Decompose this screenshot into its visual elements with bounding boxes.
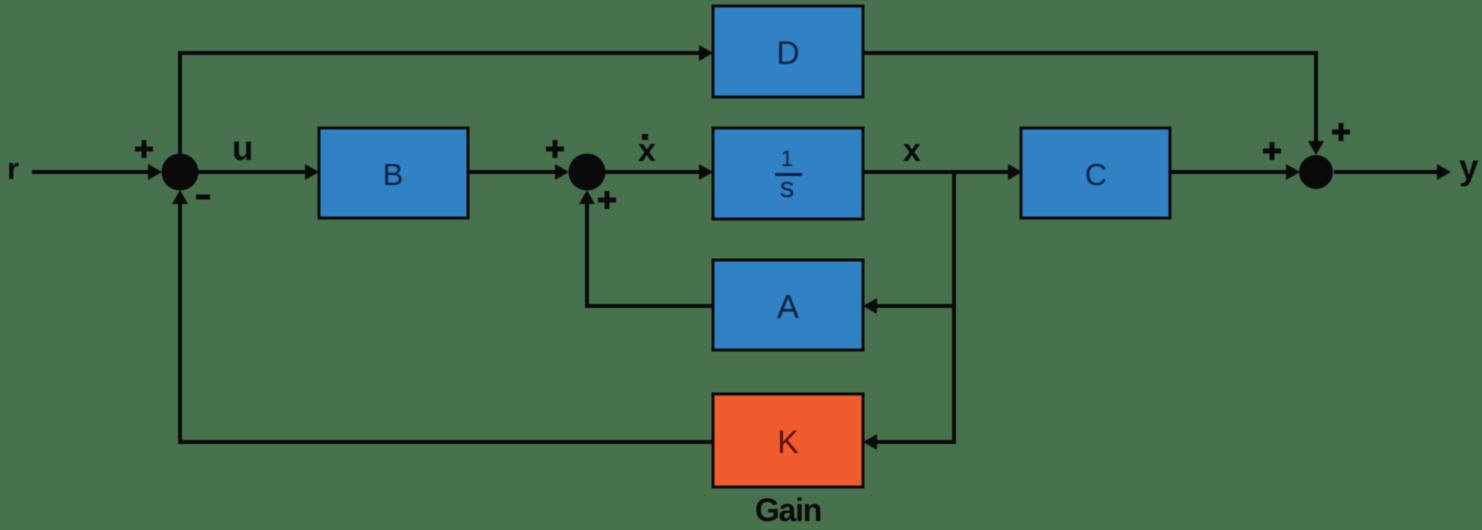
wire B to j2 bbox=[468, 170, 558, 174]
arrowhead into j3 bbox=[1286, 164, 1300, 180]
wire integrator to C bbox=[864, 170, 1010, 174]
svg-text:Gain: Gain bbox=[755, 492, 821, 528]
summing junction j1 bbox=[162, 154, 199, 191]
svg-text:D: D bbox=[776, 35, 799, 71]
arrowhead D down into j3 bbox=[1308, 141, 1324, 155]
svg-text:B: B bbox=[383, 157, 404, 192]
wire x branch down to A and K rows bbox=[876, 172, 954, 442]
wire j1 up to D row bbox=[180, 53, 700, 156]
block K gain bbox=[713, 394, 863, 487]
plus sign j2 left bbox=[546, 140, 564, 158]
wire K output feedback to j1 bbox=[180, 203, 713, 442]
block integrator 1/s bbox=[713, 128, 863, 219]
wire C to j3 bbox=[1170, 170, 1288, 174]
block B bbox=[319, 128, 468, 218]
plus sign j2 bottom bbox=[598, 191, 616, 209]
block C bbox=[1021, 128, 1170, 218]
wire j3 to y output bbox=[1334, 170, 1438, 174]
svg-text:s: s bbox=[780, 172, 795, 204]
arrowhead into integrator bbox=[699, 164, 713, 180]
summing junction j2 bbox=[569, 154, 606, 191]
arrowhead into j2 bbox=[555, 164, 569, 180]
arrowhead into D bbox=[699, 45, 713, 61]
summing junction j3 bbox=[1299, 155, 1333, 189]
svg-text:K: K bbox=[777, 424, 798, 460]
svg-text:y: y bbox=[1459, 148, 1479, 187]
svg-text:r: r bbox=[7, 151, 19, 186]
arrowhead into B bbox=[305, 164, 319, 180]
wire j1 to B bbox=[197, 170, 308, 174]
wire r input bbox=[32, 170, 152, 174]
wire j2 to integrator bbox=[605, 170, 700, 174]
svg-text:A: A bbox=[777, 288, 799, 325]
wire x branch into A bbox=[876, 304, 954, 308]
svg-text:1: 1 bbox=[781, 146, 793, 171]
arrowhead into A bbox=[863, 298, 877, 314]
plus sign j1 bbox=[135, 140, 153, 158]
svg-text:x: x bbox=[903, 132, 921, 168]
arrowhead K up into j1 bbox=[172, 190, 188, 204]
wire A output to j2 bbox=[587, 203, 713, 306]
wire D output to j3 bbox=[864, 53, 1316, 144]
arrowhead into K bbox=[863, 434, 877, 450]
plus sign j3 left bbox=[1263, 142, 1281, 160]
arrowhead into C bbox=[1008, 164, 1022, 180]
block D bbox=[713, 6, 863, 97]
svg-text:C: C bbox=[1085, 157, 1107, 192]
arrowhead output y bbox=[1437, 164, 1451, 180]
minus sign j1 bbox=[196, 195, 210, 200]
arrowhead A up into j2 bbox=[579, 190, 595, 204]
block A bbox=[713, 260, 863, 350]
svg-text:u: u bbox=[232, 129, 253, 168]
plus sign j3 top bbox=[1332, 123, 1350, 141]
arrowhead into j1 bbox=[148, 164, 162, 180]
